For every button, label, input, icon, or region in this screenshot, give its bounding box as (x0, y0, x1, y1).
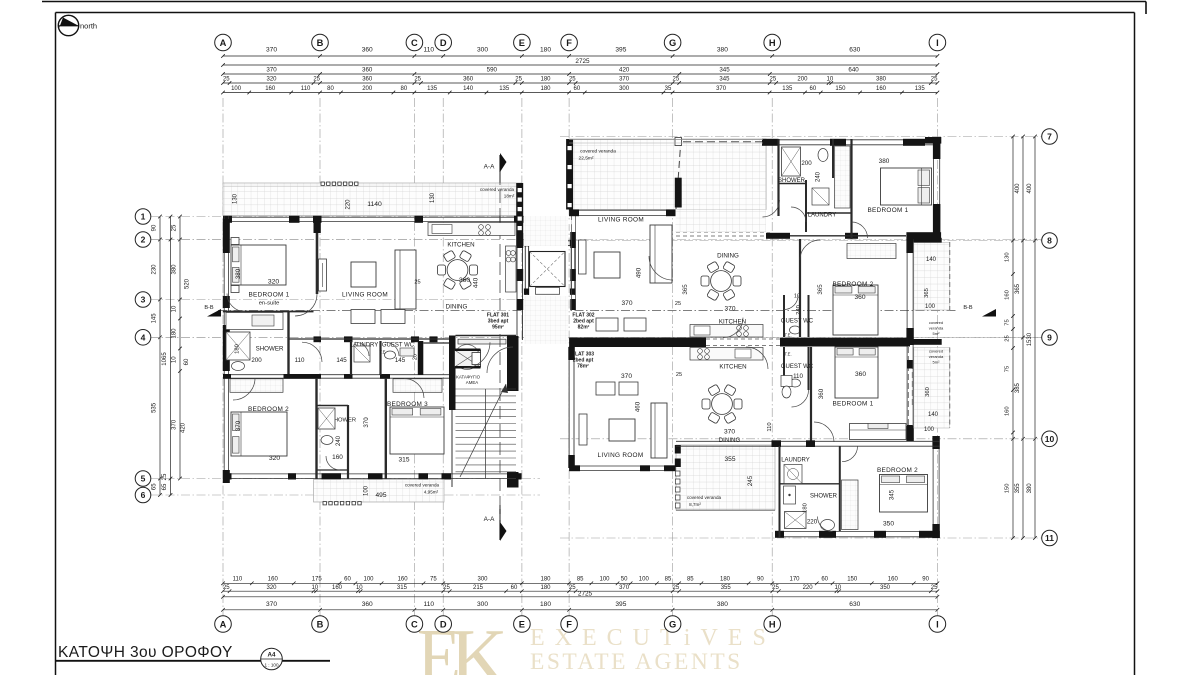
svg-text:130: 130 (233, 193, 239, 204)
svg-text:25: 25 (223, 585, 230, 591)
svg-text:300: 300 (477, 47, 488, 54)
svg-text:180: 180 (803, 503, 809, 513)
svg-text:95m²: 95m² (492, 325, 504, 331)
svg-text:T.E.: T.E. (784, 333, 791, 338)
svg-text:10: 10 (172, 305, 178, 312)
svg-text:ΑΜΕΑ: ΑΜΕΑ (466, 380, 479, 385)
svg-text:5: 5 (141, 474, 146, 484)
svg-text:315: 315 (398, 457, 409, 464)
svg-text:145: 145 (336, 357, 347, 364)
svg-text:H: H (769, 38, 776, 48)
svg-text:360: 360 (459, 277, 470, 284)
svg-text:80: 80 (327, 86, 334, 92)
svg-text:SHOWER: SHOWER (778, 178, 806, 184)
svg-text:460: 460 (635, 401, 642, 412)
svg-text:4,95m²: 4,95m² (424, 490, 439, 495)
svg-text:10: 10 (311, 585, 318, 591)
svg-text:2725: 2725 (575, 58, 590, 65)
svg-text:140: 140 (926, 257, 937, 263)
svg-text:25: 25 (931, 585, 938, 591)
svg-text:100: 100 (364, 485, 370, 496)
svg-text:1140: 1140 (367, 201, 382, 208)
svg-text:360: 360 (818, 388, 825, 399)
svg-text:LIVING ROOM: LIVING ROOM (598, 217, 644, 224)
svg-text:100: 100 (924, 427, 935, 433)
svg-text:25: 25 (770, 77, 777, 83)
svg-text:T.E.: T.E. (784, 352, 791, 357)
svg-text:365: 365 (924, 288, 930, 298)
svg-text:A: A (220, 38, 227, 48)
svg-text:370: 370 (363, 417, 370, 428)
svg-text:385: 385 (1015, 382, 1021, 393)
svg-text:180: 180 (720, 577, 731, 583)
svg-text:100: 100 (363, 577, 374, 583)
svg-text:140: 140 (463, 86, 474, 92)
svg-text:135: 135 (499, 86, 510, 92)
svg-text:I: I (936, 38, 939, 48)
svg-text:535: 535 (152, 402, 158, 413)
svg-text:GUEST WC: GUEST WC (382, 343, 415, 349)
svg-text:180: 180 (540, 86, 551, 92)
svg-text:345: 345 (719, 67, 730, 74)
svg-text:215: 215 (473, 585, 484, 591)
svg-text:400: 400 (1027, 183, 1033, 194)
svg-text:7: 7 (1047, 132, 1052, 142)
svg-text:160: 160 (888, 577, 899, 583)
svg-text:BEDROOM 2: BEDROOM 2 (877, 467, 918, 474)
svg-text:BEDROOM 2: BEDROOM 2 (248, 406, 289, 413)
svg-text:370: 370 (724, 429, 735, 436)
svg-text:10: 10 (1045, 434, 1055, 444)
svg-text:135: 135 (427, 86, 438, 92)
svg-text:DINING: DINING (719, 437, 741, 444)
svg-text:DINING: DINING (717, 253, 739, 260)
svg-text:60: 60 (810, 86, 817, 92)
svg-text:180: 180 (540, 601, 551, 608)
svg-text:BEDROOM 1: BEDROOM 1 (248, 292, 289, 299)
svg-text:150: 150 (1005, 484, 1011, 494)
svg-text:370: 370 (172, 419, 178, 430)
svg-text:SHOWER: SHOWER (256, 346, 284, 353)
svg-text:BEDROOM 1: BEDROOM 1 (867, 207, 908, 214)
svg-text:360: 360 (362, 47, 373, 54)
svg-text:360: 360 (362, 601, 373, 608)
svg-text:covered veranda: covered veranda (687, 495, 722, 500)
svg-text:350: 350 (880, 585, 891, 591)
svg-text:A-A: A-A (484, 516, 495, 523)
svg-text:200: 200 (797, 77, 808, 83)
svg-text:160: 160 (332, 454, 343, 461)
svg-text:25: 25 (569, 585, 576, 591)
svg-text:150: 150 (847, 577, 858, 583)
svg-text:130: 130 (1005, 252, 1011, 262)
svg-text:370: 370 (266, 67, 277, 74)
svg-text:230: 230 (152, 264, 158, 275)
svg-text:GUEST WC: GUEST WC (781, 364, 814, 370)
svg-text:GUEST WC: GUEST WC (781, 319, 814, 325)
svg-text:82m²: 82m² (578, 325, 590, 331)
svg-text:60: 60 (184, 358, 190, 365)
svg-text:5m²: 5m² (933, 331, 941, 336)
svg-text:130: 130 (430, 192, 436, 203)
svg-text:360: 360 (925, 387, 931, 397)
svg-text:2: 2 (141, 235, 146, 245)
svg-text:400: 400 (1015, 183, 1021, 194)
svg-text:440: 440 (473, 277, 480, 288)
svg-text:10: 10 (827, 77, 834, 83)
svg-text:5m²: 5m² (933, 360, 941, 365)
svg-text:25: 25 (223, 77, 230, 83)
svg-text:KITCHEN: KITCHEN (719, 364, 746, 371)
svg-text:380: 380 (235, 268, 242, 279)
svg-text:100: 100 (231, 86, 242, 92)
svg-text:E: E (519, 619, 525, 629)
svg-text:DINING: DINING (446, 304, 468, 311)
svg-text:365: 365 (817, 284, 824, 295)
svg-text:LIVING ROOM: LIVING ROOM (598, 452, 644, 459)
svg-text:90: 90 (922, 577, 929, 583)
svg-text:BEDROOM 3: BEDROOM 3 (387, 401, 428, 408)
svg-text:320: 320 (269, 455, 280, 462)
svg-text:25: 25 (313, 77, 320, 83)
svg-text:D: D (440, 38, 447, 48)
svg-text:D: D (440, 619, 447, 629)
svg-text:ΚΑΤΑΦΥΓΙΟ: ΚΑΤΑΦΥΓΙΟ (456, 375, 481, 380)
svg-text:A: A (220, 619, 227, 629)
svg-text:365: 365 (1015, 283, 1021, 294)
svg-text:2725: 2725 (578, 591, 593, 598)
svg-text:60: 60 (511, 585, 518, 591)
svg-text:25: 25 (162, 473, 168, 480)
svg-text:25: 25 (569, 77, 576, 83)
svg-text:180: 180 (540, 577, 551, 583)
svg-text:175: 175 (312, 577, 323, 583)
svg-text:18m²: 18m² (504, 194, 515, 199)
svg-text:1 : 100: 1 : 100 (264, 663, 278, 668)
svg-text:160: 160 (332, 585, 343, 591)
svg-text:150: 150 (835, 86, 846, 92)
svg-text:370: 370 (619, 77, 630, 83)
svg-text:630: 630 (849, 601, 860, 608)
svg-text:345: 345 (719, 77, 730, 83)
svg-text:25: 25 (515, 77, 522, 83)
svg-text:200: 200 (801, 160, 812, 167)
svg-text:520: 520 (185, 278, 191, 289)
svg-text:320: 320 (268, 279, 280, 286)
svg-text:22,5m²: 22,5m² (579, 156, 594, 162)
svg-text:25: 25 (172, 224, 178, 231)
svg-text:ESTATE AGENTS: ESTATE AGENTS (530, 649, 743, 675)
svg-text:8,7m²: 8,7m² (689, 502, 701, 507)
svg-text:370: 370 (619, 585, 630, 591)
svg-text:350: 350 (883, 521, 894, 528)
svg-text:355: 355 (1015, 483, 1021, 494)
svg-text:6: 6 (141, 490, 146, 500)
svg-text:360: 360 (855, 371, 866, 378)
svg-text:en-suite: en-suite (259, 301, 280, 307)
svg-text:1: 1 (141, 212, 146, 222)
svg-text:85: 85 (687, 577, 694, 583)
svg-text:360: 360 (463, 77, 474, 83)
svg-text:1530: 1530 (1027, 332, 1033, 346)
svg-text:75: 75 (430, 577, 437, 583)
svg-text:H: H (769, 619, 776, 629)
svg-text:145: 145 (395, 357, 406, 364)
svg-text:LIVING ROOM: LIVING ROOM (342, 292, 388, 299)
svg-text:160: 160 (265, 86, 276, 92)
svg-text:370: 370 (621, 373, 632, 380)
svg-text:360: 360 (362, 77, 373, 83)
svg-text:E: E (519, 38, 525, 48)
svg-text:135: 135 (915, 86, 926, 92)
svg-text:220: 220 (807, 519, 818, 526)
svg-text:370: 370 (724, 306, 735, 313)
svg-text:B: B (317, 38, 324, 48)
svg-text:75: 75 (1005, 319, 1011, 325)
svg-text:65: 65 (162, 483, 168, 490)
svg-text:355: 355 (721, 585, 732, 591)
svg-text:25: 25 (673, 77, 680, 83)
svg-text:25: 25 (443, 585, 450, 591)
svg-text:25: 25 (1005, 335, 1011, 341)
svg-text:220: 220 (346, 199, 352, 210)
svg-text:KITCHEN: KITCHEN (447, 242, 474, 249)
svg-text:180: 180 (172, 328, 178, 339)
svg-text:25: 25 (414, 77, 421, 83)
svg-text:160: 160 (876, 86, 887, 92)
svg-text:3: 3 (141, 295, 146, 305)
svg-text:25: 25 (673, 585, 680, 591)
svg-text:G: G (669, 38, 676, 48)
svg-text:110: 110 (295, 357, 305, 364)
svg-text:355: 355 (724, 456, 735, 463)
svg-text:85: 85 (577, 577, 584, 583)
svg-text:covered veranda: covered veranda (580, 149, 616, 155)
svg-text:8: 8 (1047, 236, 1052, 246)
svg-text:90: 90 (757, 577, 764, 583)
svg-text:B-B: B-B (204, 305, 214, 311)
svg-text:240: 240 (336, 435, 342, 446)
svg-text:300: 300 (477, 577, 488, 583)
svg-text:K: K (450, 614, 508, 675)
svg-text:50: 50 (621, 577, 628, 583)
svg-text:420: 420 (181, 422, 187, 433)
svg-text:veranda: veranda (929, 326, 944, 331)
svg-text:4: 4 (141, 332, 146, 342)
svg-text:370: 370 (621, 300, 632, 307)
svg-text:370: 370 (266, 601, 277, 608)
svg-text:10: 10 (834, 585, 841, 591)
svg-text:180: 180 (540, 47, 551, 54)
svg-text:630: 630 (849, 47, 860, 54)
svg-text:380: 380 (879, 158, 890, 165)
svg-text:F: F (566, 619, 572, 629)
svg-text:100: 100 (639, 577, 650, 583)
svg-text:60: 60 (344, 577, 351, 583)
svg-text:220: 220 (803, 585, 814, 591)
svg-text:370: 370 (235, 420, 242, 431)
svg-text:covered: covered (929, 349, 943, 354)
svg-text:110: 110 (767, 422, 773, 431)
svg-text:360: 360 (362, 67, 373, 74)
svg-text:245: 245 (747, 475, 754, 486)
svg-text:110: 110 (233, 577, 243, 583)
svg-text:135: 135 (782, 86, 793, 92)
svg-text:110: 110 (301, 86, 311, 92)
svg-text:ΚΑΤΟΨΗ 3ου ΟΡΟΦΟΥ: ΚΑΤΟΨΗ 3ου ΟΡΟΦΟΥ (58, 644, 233, 661)
svg-text:B-B: B-B (963, 305, 973, 311)
svg-text:590: 590 (487, 67, 498, 74)
svg-text:345: 345 (889, 489, 896, 500)
svg-text:LAUNDRY: LAUNDRY (781, 458, 810, 464)
svg-text:SHOWER: SHOWER (810, 494, 838, 500)
svg-text:9: 9 (1047, 333, 1052, 343)
svg-text:495: 495 (375, 492, 386, 499)
svg-text:320: 320 (266, 585, 277, 591)
svg-text:160: 160 (398, 577, 409, 583)
svg-text:180: 180 (540, 77, 551, 83)
svg-text:90: 90 (152, 224, 158, 231)
svg-text:C: C (411, 619, 418, 629)
svg-text:80: 80 (401, 86, 408, 92)
svg-text:320: 320 (266, 77, 277, 83)
svg-text:110: 110 (424, 47, 435, 54)
svg-text:360: 360 (854, 294, 865, 301)
svg-text:veranda: veranda (929, 354, 944, 359)
svg-text:60: 60 (821, 577, 828, 583)
svg-text:300: 300 (619, 86, 630, 92)
svg-text:300: 300 (477, 601, 488, 608)
svg-text:60: 60 (574, 86, 581, 92)
svg-text:180: 180 (235, 344, 241, 354)
svg-text:F: F (566, 38, 572, 48)
svg-text:A4: A4 (268, 652, 276, 659)
svg-text:11: 11 (1045, 533, 1054, 543)
svg-text:315: 315 (397, 585, 408, 591)
svg-text:160: 160 (268, 577, 279, 583)
svg-text:200: 200 (251, 357, 262, 364)
svg-text:G: G (669, 619, 676, 629)
svg-text:145: 145 (152, 313, 158, 324)
svg-text:1065: 1065 (162, 352, 168, 366)
svg-text:170: 170 (789, 577, 800, 583)
svg-text:370: 370 (266, 47, 277, 54)
svg-text:10: 10 (356, 585, 363, 591)
svg-text:100: 100 (599, 577, 610, 583)
svg-text:25: 25 (414, 280, 420, 286)
svg-text:B: B (317, 619, 324, 629)
svg-text:160: 160 (1005, 290, 1011, 300)
svg-text:BEDROOM 2: BEDROOM 2 (832, 281, 873, 288)
svg-text:100: 100 (925, 304, 936, 310)
svg-text:35: 35 (665, 86, 672, 92)
svg-text:25: 25 (772, 585, 779, 591)
svg-text:240: 240 (816, 171, 822, 182)
svg-text:380: 380 (717, 601, 728, 608)
svg-text:490: 490 (636, 267, 643, 278)
svg-text:110: 110 (424, 601, 435, 608)
svg-text:25: 25 (675, 301, 681, 307)
svg-text:25: 25 (676, 372, 682, 378)
svg-text:LAUNDRY: LAUNDRY (808, 213, 837, 219)
svg-text:395: 395 (615, 47, 626, 54)
svg-text:25: 25 (931, 77, 938, 83)
svg-text:140: 140 (928, 412, 939, 418)
svg-text:380: 380 (172, 264, 178, 275)
svg-text:10: 10 (172, 356, 178, 363)
svg-text:covered: covered (929, 320, 943, 325)
svg-text:65: 65 (152, 483, 158, 490)
svg-text:75: 75 (1005, 366, 1011, 372)
svg-text:380: 380 (1027, 483, 1033, 494)
svg-text:covered veranda: covered veranda (480, 187, 515, 192)
svg-text:200: 200 (362, 86, 373, 92)
svg-text:380: 380 (717, 47, 728, 54)
svg-text:160: 160 (1005, 406, 1011, 416)
svg-text:north: north (80, 22, 97, 31)
svg-text:640: 640 (848, 67, 859, 74)
svg-text:covered veranda: covered veranda (405, 483, 440, 488)
svg-text:380: 380 (876, 77, 887, 83)
svg-text:78m²: 78m² (577, 364, 589, 370)
svg-text:85: 85 (665, 577, 672, 583)
svg-text:BEDROOM 1: BEDROOM 1 (832, 401, 873, 408)
svg-text:395: 395 (615, 601, 626, 608)
svg-text:A-A: A-A (484, 164, 495, 171)
svg-text:365: 365 (682, 284, 689, 295)
svg-text:C: C (411, 38, 418, 48)
svg-text:180: 180 (540, 585, 551, 591)
svg-text:I: I (936, 619, 939, 629)
svg-text:420: 420 (619, 67, 630, 74)
svg-text:370: 370 (716, 86, 727, 92)
